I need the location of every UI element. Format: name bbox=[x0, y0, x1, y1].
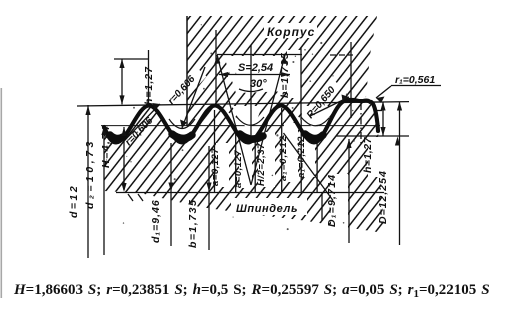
svg-text:a₁=0,212: a₁=0,212 bbox=[296, 136, 307, 178]
svg-text:d₂=10,73: d₂=10,73 bbox=[84, 138, 96, 209]
svg-text:b=1,735: b=1,735 bbox=[187, 199, 199, 248]
svg-text:d=12: d=12 bbox=[68, 184, 80, 218]
svg-text:H=4,74: H=4,74 bbox=[100, 125, 112, 168]
svg-text:r₁=0,561: r₁=0,561 bbox=[395, 74, 435, 86]
svg-text:S=2,54: S=2,54 bbox=[238, 62, 273, 74]
svg-text:H/2=2,37: H/2=2,37 bbox=[256, 143, 267, 186]
svg-text:a=0,127: a=0,127 bbox=[210, 148, 221, 186]
svg-text:30°: 30° bbox=[250, 78, 267, 90]
svg-text:a₁=0,212: a₁=0,212 bbox=[278, 135, 289, 181]
svg-text:h=1,27: h=1,27 bbox=[143, 66, 155, 105]
svg-text:b=1,735: b=1,735 bbox=[279, 52, 291, 98]
svg-text:Корпус: Корпус bbox=[267, 25, 315, 39]
svg-text:a=0,127: a=0,127 bbox=[233, 150, 244, 188]
svg-text:Шпиндель: Шпиндель bbox=[236, 203, 298, 215]
svg-text:D=12,254: D=12,254 bbox=[377, 170, 389, 224]
svg-text:d₁=9,46: d₁=9,46 bbox=[150, 199, 162, 243]
svg-text:D₁=9,714: D₁=9,714 bbox=[326, 174, 338, 227]
svg-text:h=1,27: h=1,27 bbox=[362, 136, 374, 173]
